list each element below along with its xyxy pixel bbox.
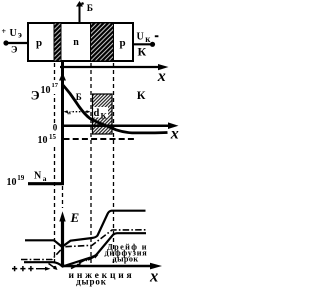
bottom x-axis	[63, 265, 154, 267]
dashed line x=91 (collector junction left edge)	[90, 63, 92, 266]
injection arrow right	[36, 268, 46, 270]
svg-text:К: К	[101, 110, 108, 120]
svg-text:К: К	[138, 44, 147, 58]
dashed line x=62.5 (below Na step)	[62, 186, 64, 208]
emitter-base junction strip (hatched)	[54, 23, 61, 61]
label 10^15 with halo	[37, 133, 58, 145]
svg-text:10: 10	[38, 135, 48, 146]
svg-text:n: n	[73, 37, 79, 48]
svg-text:x: x	[149, 267, 158, 286]
svg-text:19: 19	[17, 174, 25, 182]
svg-text:Э: Э	[11, 46, 17, 56]
structure x-axis	[60, 66, 160, 68]
svg-text:17: 17	[52, 82, 59, 89]
svg-text:Э: Э	[31, 87, 40, 102]
10^15 dashed level line	[64, 138, 137, 140]
concentration 0-line x-axis	[62, 124, 171, 127]
svg-text:К: К	[137, 88, 146, 102]
svg-text:10: 10	[7, 177, 17, 188]
valence band Ev	[24, 233, 146, 266]
Na level step line	[28, 182, 64, 185]
svg-text:Б: Б	[76, 92, 82, 102]
label 0 with halo	[52, 124, 60, 132]
svg-text:15: 15	[49, 133, 57, 141]
label d_K with halo	[93, 107, 108, 118]
svg-text:к: к	[145, 34, 151, 44]
svg-text:a: a	[43, 174, 47, 183]
svg-text:0: 0	[53, 122, 58, 132]
svg-text:x: x	[170, 125, 179, 142]
svg-text:U: U	[137, 32, 144, 43]
drift arrow 3	[88, 257, 95, 261]
transistor body box	[28, 23, 133, 61]
svg-text:N: N	[34, 171, 42, 182]
svg-text:x: x	[157, 68, 166, 85]
plus signs (holes)	[12, 266, 17, 271]
concentration axis (vertical)	[61, 62, 64, 186]
injection arrow down-right	[49, 264, 56, 269]
conduction band Ec	[25, 211, 146, 247]
base-collector junction strip (hatched)	[91, 23, 114, 61]
d_K depletion hatched rectangle	[93, 94, 113, 134]
svg-text:дырок: дырок	[113, 254, 139, 263]
svg-text:10: 10	[41, 85, 51, 96]
svg-text:p: p	[119, 37, 125, 49]
label 10^17 with halo	[40, 80, 59, 94]
emitter lead	[3, 40, 8, 45]
Fermi level (dash-dot)	[21, 230, 146, 260]
svg-text:E: E	[70, 210, 80, 225]
svg-text:э: э	[18, 30, 22, 40]
svg-text:p: p	[36, 37, 42, 49]
E axis (band diagram)	[61, 220, 64, 266]
drift arrow 1	[71, 265, 78, 269]
svg-text:d: d	[94, 108, 100, 119]
hole concentration curve	[63, 85, 168, 133]
base lead	[79, 4, 81, 23]
svg-text:+: +	[2, 27, 7, 36]
svg-text:U: U	[10, 28, 17, 39]
svg-text:Б: Б	[87, 4, 93, 14]
collector lead	[133, 43, 153, 45]
w measure line with arrows	[64, 110, 68, 113]
dashed line x=54.5 (emitter junction left edge)	[54, 63, 56, 268]
dashed line x=113.5 (collector junction right edge)	[113, 63, 115, 266]
drift arrow 2	[79, 260, 86, 264]
svg-text:дырок: дырок	[76, 276, 107, 286]
